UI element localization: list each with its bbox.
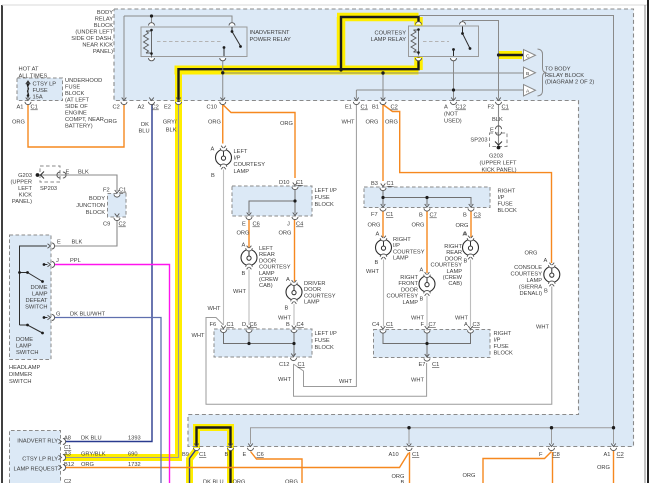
svg-text:(AT LEFT: (AT LEFT <box>65 98 90 104</box>
svg-text:C1: C1 <box>119 188 126 194</box>
svg-text:I/P: I/P <box>234 156 241 162</box>
svg-text:BLU: BLU <box>139 129 150 135</box>
svg-text:C3: C3 <box>473 322 480 328</box>
svg-text:TO BODY: TO BODY <box>545 67 571 73</box>
svg-text:LAMP: LAMP <box>304 300 320 306</box>
svg-text:REAR: REAR <box>259 252 275 258</box>
svg-text:C7: C7 <box>429 322 436 328</box>
svg-text:A: A <box>544 258 548 264</box>
svg-text:A2: A2 <box>138 105 145 111</box>
svg-text:(UPPER: (UPPER <box>11 180 33 186</box>
svg-text:DK: DK <box>141 122 149 128</box>
svg-text:F: F <box>421 322 425 328</box>
svg-text:(CREW: (CREW <box>259 277 279 283</box>
svg-text:COURTESY: COURTESY <box>375 31 407 37</box>
svg-text:PANEL): PANEL) <box>93 49 113 55</box>
svg-text:ORG: ORG <box>208 120 221 126</box>
svg-text:LEFT: LEFT <box>18 186 32 192</box>
svg-text:COURTESY: COURTESY <box>387 294 419 300</box>
svg-text:WHT: WHT <box>339 379 352 385</box>
svg-text:LAMP: LAMP <box>403 300 419 306</box>
svg-text:CAB): CAB) <box>259 283 273 289</box>
svg-text:KICK: KICK <box>19 193 32 199</box>
svg-text:ORG: ORG <box>456 223 469 229</box>
svg-text:A1: A1 <box>604 452 611 458</box>
svg-text:BLOCK: BLOCK <box>94 23 113 29</box>
svg-text:B: B <box>225 452 229 458</box>
svg-text:ORG: ORG <box>385 120 398 126</box>
svg-text:DOOR: DOOR <box>401 287 418 293</box>
svg-text:SWITCH: SWITCH <box>25 305 47 311</box>
svg-text:FUSE: FUSE <box>65 85 80 91</box>
svg-text:DRIVER: DRIVER <box>304 281 326 287</box>
svg-text:WHT: WHT <box>208 306 221 312</box>
svg-text:C1: C1 <box>64 445 71 451</box>
svg-text:COURTESY: COURTESY <box>234 162 266 168</box>
svg-text:C1: C1 <box>31 105 38 111</box>
svg-text:A10: A10 <box>389 452 399 458</box>
svg-text:ENGINE: ENGINE <box>65 111 87 117</box>
svg-text:E: E <box>490 128 494 134</box>
svg-text:BLK: BLK <box>72 240 83 246</box>
svg-text:DOME: DOME <box>16 337 33 343</box>
svg-text:WHT: WHT <box>411 316 424 322</box>
svg-text:B: B <box>375 260 379 266</box>
svg-text:C1: C1 <box>387 181 394 187</box>
svg-text:A: A <box>242 243 246 249</box>
svg-text:ORG: ORG <box>285 480 298 483</box>
svg-text:C1: C1 <box>386 322 393 328</box>
svg-text:E: E <box>243 452 247 458</box>
svg-text:ORG: ORG <box>104 119 117 125</box>
svg-text:REAR: REAR <box>446 250 462 256</box>
svg-text:15A: 15A <box>33 95 43 101</box>
svg-text:RIGHT: RIGHT <box>498 189 516 195</box>
svg-text:B: B <box>419 213 423 219</box>
svg-text:RELAY BLOCK: RELAY BLOCK <box>545 73 584 79</box>
svg-text:E: E <box>66 170 70 176</box>
svg-text:ORG: ORG <box>237 231 250 237</box>
svg-text:LAMP: LAMP <box>447 269 463 275</box>
svg-text:J: J <box>56 258 59 264</box>
svg-text:WHT: WHT <box>455 316 468 322</box>
svg-text:HEADLAMP: HEADLAMP <box>9 365 40 371</box>
svg-text:C10: C10 <box>207 105 217 111</box>
svg-text:GRY/BLK: GRY/BLK <box>81 452 106 458</box>
svg-text:BLK: BLK <box>492 117 503 123</box>
svg-text:WHT: WHT <box>233 289 246 295</box>
svg-text:ORG: ORG <box>368 223 381 229</box>
svg-text:RIGHT: RIGHT <box>494 331 512 337</box>
svg-text:SP203: SP203 <box>470 138 487 144</box>
svg-text:C1: C1 <box>199 452 206 458</box>
svg-text:C8: C8 <box>553 452 560 458</box>
svg-text:JUNCTION: JUNCTION <box>76 203 105 209</box>
svg-text:DOOR: DOOR <box>445 256 462 262</box>
svg-text:DENALI): DENALI) <box>520 291 543 297</box>
svg-text:RIGHT: RIGHT <box>393 237 411 243</box>
svg-text:B9: B9 <box>182 452 189 458</box>
svg-text:DOME: DOME <box>30 285 47 291</box>
svg-text:CTSY LP: CTSY LP <box>33 82 57 88</box>
svg-text:C2: C2 <box>391 105 398 111</box>
svg-text:A: A <box>286 277 290 283</box>
svg-text:A: A <box>444 105 448 111</box>
svg-text:LAMP: LAMP <box>527 278 543 284</box>
svg-text:CONSOLE: CONSOLE <box>514 265 542 271</box>
svg-text:DEFEAT: DEFEAT <box>25 298 48 304</box>
svg-text:C6: C6 <box>253 222 260 228</box>
svg-text:LAMP RELAY: LAMP RELAY <box>371 37 406 43</box>
svg-text:B: B <box>242 271 246 277</box>
svg-text:C1: C1 <box>412 452 419 458</box>
svg-text:E7: E7 <box>419 362 426 368</box>
svg-text:WHT: WHT <box>411 378 424 384</box>
svg-text:BLK: BLK <box>166 128 177 134</box>
svg-text:DK BLU: DK BLU <box>203 480 224 483</box>
svg-text:F2: F2 <box>103 188 110 194</box>
svg-text:J: J <box>287 222 290 228</box>
svg-text:LAMP REQUEST: LAMP REQUEST <box>14 467 59 473</box>
svg-text:RIGHT: RIGHT <box>444 244 462 250</box>
svg-text:SIDE OF DASH,: SIDE OF DASH, <box>71 36 113 42</box>
svg-text:C2: C2 <box>119 222 126 228</box>
svg-text:C1: C1 <box>227 322 234 328</box>
svg-text:BLOCK: BLOCK <box>315 345 334 351</box>
svg-text:(NOT: (NOT <box>444 112 458 118</box>
svg-text:FUSE: FUSE <box>315 195 330 201</box>
svg-text:BLOCK: BLOCK <box>498 208 517 214</box>
svg-text:ORG: ORG <box>280 121 293 127</box>
svg-text:ORG: ORG <box>412 223 425 229</box>
svg-text:C1: C1 <box>361 105 368 111</box>
svg-text:ORG: ORG <box>463 473 476 479</box>
svg-text:HOT AT: HOT AT <box>19 67 40 73</box>
svg-text:C12: C12 <box>456 105 466 111</box>
svg-text:F6: F6 <box>210 322 217 328</box>
svg-text:LEFT I/P: LEFT I/P <box>315 188 338 194</box>
svg-text:NEAR KICK: NEAR KICK <box>82 43 113 49</box>
svg-text:WHT: WHT <box>278 377 291 383</box>
svg-text:I/P: I/P <box>393 243 400 249</box>
svg-text:B3: B3 <box>371 181 378 187</box>
svg-text:B: B <box>544 289 548 295</box>
svg-text:C6: C6 <box>257 452 264 458</box>
svg-text:BLOCK: BLOCK <box>65 91 84 97</box>
svg-text:A8: A8 <box>64 436 71 442</box>
svg-text:A1: A1 <box>17 105 24 111</box>
svg-text:ORG: ORG <box>279 231 292 237</box>
svg-text:B: B <box>286 322 290 328</box>
svg-text:INADVERTENT: INADVERTENT <box>250 30 291 36</box>
svg-text:C4: C4 <box>297 322 304 328</box>
svg-text:LAMP: LAMP <box>393 256 409 262</box>
svg-text:B1: B1 <box>372 105 379 111</box>
svg-text:PPL: PPL <box>70 258 81 264</box>
svg-text:LEFT: LEFT <box>259 246 273 252</box>
svg-text:WHT: WHT <box>192 333 205 339</box>
svg-text:(SIERRA: (SIERRA <box>519 285 542 291</box>
svg-text:1393: 1393 <box>128 436 141 442</box>
svg-text:E: E <box>242 222 246 228</box>
svg-text:C1: C1 <box>298 362 305 368</box>
svg-text:1732: 1732 <box>128 462 141 468</box>
svg-text:B: B <box>526 71 529 77</box>
svg-text:(UNDER LEFT: (UNDER LEFT <box>75 30 113 36</box>
svg-text:ORG: ORG <box>597 465 610 471</box>
svg-text:C12: C12 <box>279 362 289 368</box>
svg-text:WHT: WHT <box>342 120 355 126</box>
svg-text:C2: C2 <box>113 105 120 111</box>
svg-text:LAMP: LAMP <box>32 292 48 298</box>
svg-text:F7: F7 <box>371 212 378 218</box>
svg-text:E: E <box>57 240 61 246</box>
svg-text:WHT: WHT <box>536 325 549 331</box>
svg-text:E2: E2 <box>164 105 171 111</box>
svg-text:DK BLU/WHT: DK BLU/WHT <box>70 312 106 318</box>
svg-text:690: 690 <box>128 452 138 458</box>
svg-text:F: F <box>539 452 543 458</box>
svg-text:SWITCH: SWITCH <box>16 350 38 356</box>
svg-text:BLOCK: BLOCK <box>86 210 105 216</box>
svg-text:LAMP: LAMP <box>234 169 250 175</box>
svg-text:C1: C1 <box>386 212 393 218</box>
svg-text:WHT: WHT <box>278 316 291 322</box>
svg-text:C: C <box>526 54 530 60</box>
svg-text:ORG: ORG <box>366 120 379 126</box>
svg-text:DOOR: DOOR <box>259 258 276 264</box>
svg-text:SWITCH: SWITCH <box>9 379 31 385</box>
svg-text:COURTESY: COURTESY <box>304 293 336 299</box>
svg-text:B: B <box>285 306 289 312</box>
svg-text:KICK PANEL): KICK PANEL) <box>482 168 517 174</box>
svg-text:B: B <box>463 213 467 219</box>
svg-text:A: A <box>211 147 215 153</box>
svg-text:C3: C3 <box>474 213 481 219</box>
svg-text:(DIAGRAM 2 OF 2): (DIAGRAM 2 OF 2) <box>545 80 594 86</box>
svg-text:A: A <box>463 232 467 238</box>
svg-text:INADVERT RLY: INADVERT RLY <box>17 439 58 445</box>
svg-text:G: G <box>56 312 60 318</box>
svg-text:FRONT: FRONT <box>398 281 418 287</box>
svg-text:ORG: ORG <box>233 480 246 483</box>
svg-text:C1: C1 <box>502 105 509 111</box>
svg-text:DIMMER: DIMMER <box>9 372 32 378</box>
svg-text:SP203: SP203 <box>40 186 57 192</box>
svg-text:COMPT, NEAR: COMPT, NEAR <box>65 117 104 123</box>
svg-text:C2: C2 <box>152 105 159 111</box>
svg-text:C4: C4 <box>372 322 379 328</box>
svg-text:BLOCK: BLOCK <box>315 202 334 208</box>
svg-text:C7: C7 <box>430 213 437 219</box>
svg-text:D10: D10 <box>279 180 289 186</box>
svg-text:BODY: BODY <box>97 10 113 16</box>
svg-text:G203: G203 <box>18 173 32 179</box>
svg-text:LEFT: LEFT <box>234 149 248 155</box>
svg-text:F2: F2 <box>488 105 495 111</box>
svg-text:(CREW: (CREW <box>443 275 463 281</box>
svg-text:B: B <box>420 297 424 303</box>
svg-text:ORG: ORG <box>81 462 94 468</box>
svg-text:(UPPER LEFT: (UPPER LEFT <box>480 161 518 167</box>
svg-text:LAMP: LAMP <box>16 344 32 350</box>
svg-text:C2: C2 <box>617 452 624 458</box>
svg-text:COURTESY: COURTESY <box>431 263 463 269</box>
svg-text:I/P: I/P <box>494 338 501 344</box>
svg-text:LAMP: LAMP <box>259 271 275 277</box>
svg-text:UNDERHOOD: UNDERHOOD <box>65 78 102 84</box>
svg-text:COURTESY: COURTESY <box>393 249 425 255</box>
svg-text:BATTERY): BATTERY) <box>65 124 93 130</box>
svg-text:G203: G203 <box>489 154 503 160</box>
svg-text:C1: C1 <box>296 180 303 186</box>
svg-text:BLK: BLK <box>78 170 89 176</box>
svg-text:ORG: ORG <box>525 251 538 257</box>
svg-text:C4: C4 <box>296 222 303 228</box>
svg-text:A: A <box>464 322 468 328</box>
svg-text:ORG: ORG <box>12 120 25 126</box>
svg-text:FUSE: FUSE <box>33 88 48 94</box>
svg-text:D: D <box>242 322 246 328</box>
svg-text:E1: E1 <box>345 105 352 111</box>
svg-text:B: B <box>464 259 468 265</box>
svg-text:C9: C9 <box>103 222 110 228</box>
svg-text:C6: C6 <box>250 322 257 328</box>
svg-text:C2: C2 <box>64 479 71 483</box>
svg-text:USED): USED) <box>444 119 462 125</box>
svg-text:A: A <box>420 268 424 274</box>
svg-text:B12: B12 <box>64 462 74 468</box>
svg-text:C1: C1 <box>432 362 439 368</box>
svg-text:I/P: I/P <box>498 195 505 201</box>
svg-text:DK BLU: DK BLU <box>81 436 102 442</box>
svg-text:BODY: BODY <box>89 196 105 202</box>
svg-text:RIGHT: RIGHT <box>400 275 418 281</box>
svg-text:ALL TIMES: ALL TIMES <box>19 74 48 80</box>
svg-text:BLOCK: BLOCK <box>494 351 513 357</box>
svg-text:A: A <box>376 232 380 238</box>
svg-text:GRY/: GRY/ <box>163 120 177 126</box>
svg-text:COURTESY: COURTESY <box>511 272 543 278</box>
svg-text:RELAY: RELAY <box>95 17 113 23</box>
svg-text:PANEL): PANEL) <box>12 199 32 205</box>
svg-text:SIDE OF: SIDE OF <box>65 104 88 110</box>
svg-text:DOOR: DOOR <box>304 287 321 293</box>
svg-text:B: B <box>211 173 215 179</box>
svg-text:CTSY LP RLY: CTSY LP RLY <box>22 457 58 463</box>
svg-text:FUSE: FUSE <box>498 202 513 208</box>
svg-text:LEFT I/P: LEFT I/P <box>315 331 338 337</box>
svg-text:POWER RELAY: POWER RELAY <box>250 37 292 43</box>
svg-text:WHT: WHT <box>366 269 379 275</box>
svg-text:FUSE: FUSE <box>494 344 509 350</box>
svg-text:A3: A3 <box>64 452 71 458</box>
svg-text:FUSE: FUSE <box>315 338 330 344</box>
svg-text:CAB): CAB) <box>448 281 462 287</box>
svg-text:COURTESY: COURTESY <box>259 265 291 271</box>
